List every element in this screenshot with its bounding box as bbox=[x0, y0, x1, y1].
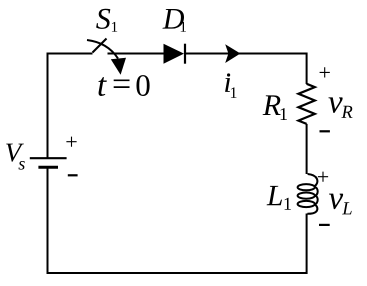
label S1 bbox=[96, 9, 117, 32]
switch S1 blade bbox=[93, 39, 107, 53]
label L1 bbox=[267, 186, 291, 210]
resistor R1 zigzag bbox=[298, 84, 314, 124]
vL plus sign bbox=[318, 172, 328, 182]
label Vs bbox=[6, 144, 25, 170]
label vR bbox=[328, 97, 352, 118]
wire top-left segment bbox=[47, 53, 93, 55]
inductor L1 coil bbox=[298, 174, 318, 214]
label D1 bbox=[162, 9, 186, 32]
label vL bbox=[329, 194, 352, 215]
vL minus sign bbox=[319, 224, 330, 226]
wire R1 to L1 bbox=[306, 124, 308, 174]
Vs minus sign bbox=[68, 174, 78, 176]
wire left vertical upper (Vs top lead) bbox=[47, 53, 49, 159]
label i1 bbox=[225, 78, 236, 98]
wire switch to diode bbox=[108, 53, 165, 55]
Vs plus sign bbox=[66, 137, 76, 147]
wire bottom bbox=[47, 272, 308, 274]
diode D1 triangle (anode) bbox=[164, 44, 185, 64]
label R1 bbox=[263, 95, 287, 120]
vR minus sign bbox=[320, 130, 330, 132]
wire L1 to bottom-right corner bbox=[306, 214, 308, 275]
voltage source Vs short plate (-) bbox=[38, 166, 58, 169]
switch S1 closing arc bbox=[87, 40, 118, 59]
voltage source Vs long plate (+) bbox=[30, 157, 67, 159]
vR plus sign bbox=[320, 67, 330, 77]
wire diode to top-right corner bbox=[186, 53, 308, 55]
current arrow i1 bbox=[225, 44, 240, 63]
switch S1 arrowhead bbox=[111, 58, 126, 75]
label t = 0 bbox=[98, 75, 149, 96]
diode D1 cathode bar bbox=[184, 44, 186, 64]
wire left vertical lower (Vs bottom lead) bbox=[47, 167, 49, 274]
wire right vertical upper (to R1) bbox=[306, 53, 308, 85]
